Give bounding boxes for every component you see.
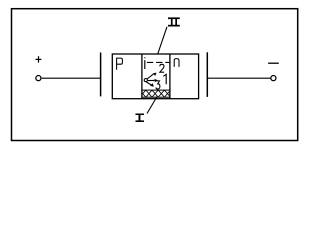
i-n junction divider (169, 54, 171, 99)
label 2 (160, 64, 164, 72)
leader line I (147, 97, 157, 114)
semiconductor body box (112, 54, 198, 99)
p region label (117, 58, 123, 70)
hatched region I strip (140, 90, 171, 97)
dashed boundary line (node II) (147, 61, 170, 63)
i region label (144, 57, 146, 69)
wire cathode lead (207, 77, 270, 79)
left contact electrode bar (100, 53, 102, 97)
label 1 (163, 74, 166, 84)
n region label (174, 59, 179, 67)
label I (136, 114, 145, 123)
plus polarity label (36, 56, 42, 62)
anode terminal (36, 76, 41, 81)
border frame (12, 9, 298, 141)
p-i junction divider (141, 54, 143, 99)
minus polarity label (268, 62, 279, 64)
right contact electrode bar (206, 52, 208, 97)
arrow to 1 (148, 79, 158, 82)
label 3 (156, 81, 160, 89)
leader line II (158, 27, 167, 55)
arrow to 3 (146, 82, 153, 87)
cathode terminal (271, 76, 276, 81)
wire anode lead (42, 77, 101, 79)
label II (168, 17, 180, 26)
carrier source circle (144, 79, 147, 82)
arrow to 2 (147, 73, 157, 79)
